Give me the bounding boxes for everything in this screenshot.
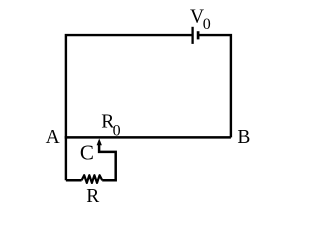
svg-text:0: 0 [113, 123, 121, 140]
svg-text:B: B [237, 127, 250, 148]
svg-text:R: R [86, 186, 99, 207]
svg-text:0: 0 [203, 16, 211, 33]
svg-text:A: A [46, 127, 60, 148]
svg-text:C: C [80, 140, 94, 164]
